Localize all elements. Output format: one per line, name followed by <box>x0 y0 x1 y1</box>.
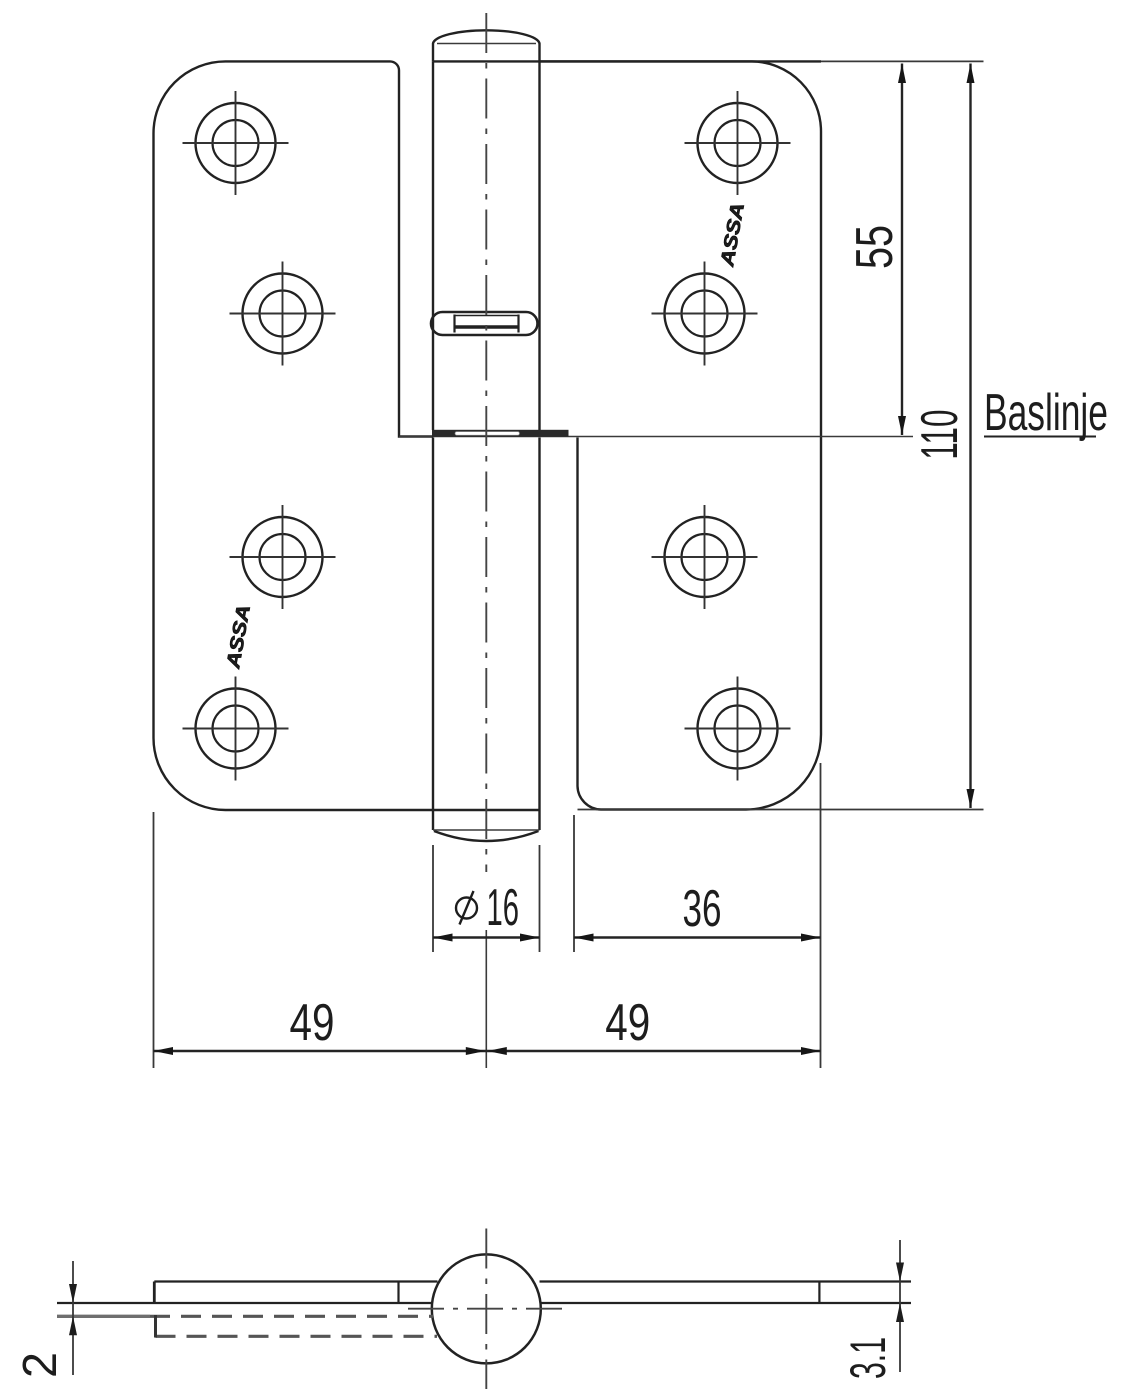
svg-text:16: 16 <box>487 879 520 937</box>
svg-text:2: 2 <box>14 1352 67 1378</box>
svg-text:3.1: 3.1 <box>840 1337 896 1379</box>
svg-text:55: 55 <box>846 225 904 269</box>
svg-text:Baslinje: Baslinje <box>984 384 1108 442</box>
svg-text:49: 49 <box>605 994 650 1052</box>
svg-text:110: 110 <box>911 410 969 460</box>
svg-text:36: 36 <box>683 880 722 938</box>
svg-text:49: 49 <box>290 994 335 1052</box>
